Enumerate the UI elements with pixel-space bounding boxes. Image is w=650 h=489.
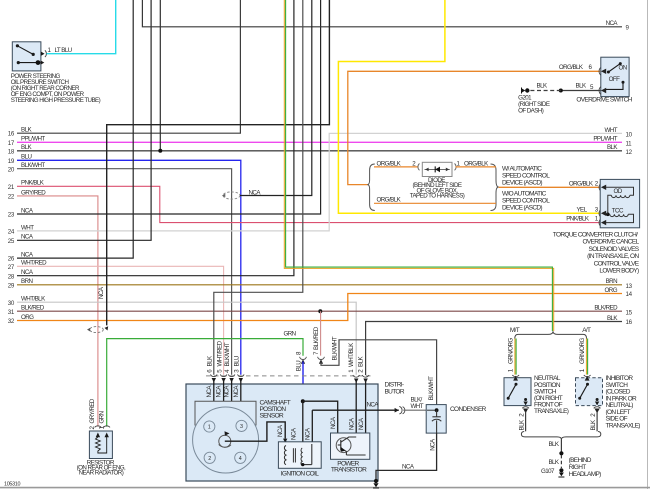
connector arcs resistor pins [95, 426, 102, 428]
wire BLK from neutral position switch [518, 412, 525, 432]
svg-text:19: 19 [8, 158, 15, 165]
sensor contact 4 [235, 452, 246, 463]
svg-text:17: 17 [8, 140, 15, 147]
svg-text:GRN: GRN [284, 331, 296, 338]
svg-text:ORG/BLK: ORG/BLK [464, 160, 489, 167]
svg-text:GRN/ORG: GRN/ORG [508, 338, 515, 364]
wire NCA from blue dot junction [301, 399, 305, 403]
wire BLK from inhibitor switch [590, 412, 597, 432]
connector arcs at diode [418, 164, 420, 171]
svg-text:LT BLU: LT BLU [55, 47, 72, 54]
inline connector (dashed ellipse) at bottom of NCA x107 line [87, 326, 108, 332]
wire 28 NCA (left edge to top) [8, 0, 294, 280]
wires pins 6 5 4 3 into sensor rect with NCA labels [206, 378, 241, 401]
power steering oil pressure switch box [12, 42, 44, 71]
pin labels 6 BLK / 5 WHT/RED / 4 BLK/WHT / 3 BLU rotated [207, 340, 241, 372]
svg-text:PPL/WHT: PPL/WHT [593, 136, 617, 143]
wire GRN/ORG to inhibitor switch [579, 338, 588, 375]
svg-text:WHT: WHT [21, 224, 34, 231]
wire NCA to distributor pin 6 (gray net from top) [214, 0, 303, 375]
svg-text:NCA: NCA [606, 20, 619, 27]
svg-text:OD: OD [614, 188, 623, 195]
junction dot BLK [559, 451, 563, 455]
svg-text:NCA: NCA [291, 427, 298, 440]
ignition coil box [278, 442, 321, 469]
svg-text:NCA: NCA [367, 402, 380, 409]
svg-text:23: 23 [8, 212, 15, 219]
wire GRN/ORG green strand (top to M/T A/T brace) [286, 0, 553, 331]
wire BLK/WHT pin7 stub to condenser [321, 340, 437, 405]
ground G201 [521, 88, 530, 94]
wire BLU pin 8 into distributor [296, 351, 303, 401]
svg-text:BLK: BLK [607, 315, 618, 322]
svg-text:20: 20 [8, 166, 15, 173]
wire NCA from inline connector to top [240, 0, 312, 196]
svg-text:ORG/BLK: ORG/BLK [377, 160, 402, 167]
svg-text:BLK: BLK [21, 127, 32, 134]
svg-text:BLK/WHT: BLK/WHT [21, 162, 45, 169]
junction dot G201 branch [559, 89, 563, 93]
wire 18 BLK (left 18 to right 12) [8, 144, 633, 156]
svg-text:BRN: BRN [21, 278, 32, 285]
svg-text:A/T: A/T [582, 327, 591, 334]
svg-text:NCA: NCA [402, 463, 415, 470]
ground at distributor case [373, 479, 379, 488]
svg-text:WHT: WHT [411, 403, 424, 410]
svg-text:NCA: NCA [224, 385, 231, 398]
svg-text:WHT/RED: WHT/RED [216, 340, 223, 366]
inline connector (dashed ellipse) NCA stub near camshaft sensor [222, 189, 261, 199]
wire NCA bus (x107 vertical with top run to x329) [98, 0, 329, 325]
wire 31 junction dot and BLK/RED branch to pin 7 connector [318, 309, 322, 355]
wire 27 WHT/RED (left edge to distributor pin 5) [8, 260, 224, 375]
svg-text:PNK/BLK: PNK/BLK [566, 216, 590, 223]
svg-text:BLU: BLU [21, 154, 31, 161]
svg-text:NCA: NCA [21, 234, 34, 241]
pin 1 connector of power steering switch [45, 50, 47, 57]
connector arcs at switch pins [512, 375, 519, 377]
svg-text:NCA: NCA [358, 417, 365, 430]
wires pins 1 2 into transistor area with NCA labels [349, 379, 366, 456]
svg-text:ORG/BLK: ORG/BLK [569, 181, 594, 188]
svg-text:24: 24 [8, 229, 15, 236]
svg-text:BLK: BLK [518, 419, 525, 430]
svg-text:NCA: NCA [98, 286, 105, 299]
wire GRN/ORG orange strand (top to M/T A/T brace) [284, 0, 553, 331]
svg-text:BLK: BLK [358, 356, 365, 367]
wire ORG/BLK diode row top right [456, 166, 497, 168]
connector arcs TCC pins 2,3,1 [599, 184, 601, 192]
svg-text:WHT/RED: WHT/RED [21, 260, 47, 267]
wire ORG/BLK to TCC pin 2 [499, 186, 601, 188]
connector pin 7 inline (double arc) [313, 326, 324, 363]
sensor contact 2 [204, 452, 215, 463]
svg-text:BLK/WHT: BLK/WHT [428, 376, 435, 400]
svg-text:105310: 105310 [4, 482, 20, 488]
svg-text:BLK/RED: BLK/RED [594, 305, 618, 312]
svg-text:ORG/BLK: ORG/BLK [377, 197, 402, 204]
camshaft position sensor circle [193, 407, 259, 473]
diode D1 box [422, 162, 452, 176]
wire YEL (top to TCC pin 3) [338, 0, 600, 213]
svg-text:ORG/BLK: ORG/BLK [559, 64, 584, 71]
wire BLK below merge brace [560, 440, 562, 453]
wire 32 ORG (left 32, jog up, to right 14) [8, 287, 633, 325]
connector arcs below switches [522, 407, 529, 409]
connector dashed line at distributor [206, 375, 371, 377]
wire 1 LT BLU from switch to top [47, 0, 116, 54]
sensor contact 1 [204, 421, 215, 432]
wire GRN from resistor to pin 8 connector [107, 339, 303, 427]
svg-text:NCA: NCA [430, 438, 437, 451]
svg-text:NCA: NCA [330, 416, 337, 429]
svg-text:31: 31 [8, 309, 15, 316]
power transistor box [331, 433, 370, 459]
svg-text:GRN/ORG: GRN/ORG [579, 338, 586, 364]
hook arrow into coil [285, 440, 291, 443]
wire GRN/ORG to neutral position switch [508, 338, 517, 375]
svg-text:WHT/BLK: WHT/BLK [21, 296, 46, 303]
wire NCA condenser return to ground [376, 433, 437, 481]
brace M/T A/T split [515, 331, 587, 338]
wire NCA dot to transistor base [303, 401, 338, 433]
brace right of diode alternates [491, 164, 499, 211]
sensor rotor center [219, 431, 231, 447]
svg-text:OFF: OFF [609, 76, 620, 83]
wire right 16 BLK (distributor pin 2 to right 16) [366, 315, 633, 375]
wire 30 WHT/BLK (left edge to distributor pin 1) [8, 296, 356, 375]
page border right [647, 0, 649, 489]
wire 17 PPL/WHT (left 17 to right 11) [8, 136, 632, 148]
svg-text:GRY/RED: GRY/RED [89, 398, 96, 423]
wire 24 WHT (left 24 up to right 10) [8, 127, 633, 236]
sensor contact 3 [236, 420, 247, 431]
svg-text:BLK: BLK [537, 83, 548, 90]
svg-text:OVERDRIVE SWITCH: OVERDRIVE SWITCH [576, 96, 632, 103]
svg-text:PNK/BLK: PNK/BLK [21, 180, 45, 187]
connector arc overdrive pin 5 [599, 87, 601, 95]
svg-text:BLK/WHT: BLK/WHT [332, 336, 339, 360]
wire NCA from sensor rotor to ignition coil [225, 422, 285, 441]
resistor box [89, 431, 112, 459]
distributor box [186, 384, 378, 481]
wire 23 NCA (left edge to top) [8, 0, 321, 219]
wire 26 NCA (left edge to top) [8, 0, 133, 263]
svg-text:CONDENSER: CONDENSER [450, 406, 487, 413]
wire NCA to condenser with connector [312, 409, 399, 411]
wire 21 PNK/BLK (left edge, jog down, to TCC pin 1) [8, 180, 600, 223]
wire 31 BLK/RED (left 31 to right 15) [8, 305, 633, 317]
svg-text:10: 10 [626, 131, 633, 138]
connector arcs pins 6 5 4 3 with arrows into box [211, 374, 245, 382]
svg-text:29: 29 [8, 282, 15, 289]
wire 22 GRY/RED (left edge down to resistor pin 2) [8, 189, 98, 426]
wire 20 BLK/WHT (left edge to distributor pin 4) [8, 162, 232, 375]
pin 1 arrow [41, 52, 45, 56]
inhibitor switch box (dashed) [576, 376, 603, 406]
svg-text:ORG: ORG [605, 287, 618, 294]
svg-text:BLK/WHT: BLK/WHT [224, 342, 231, 366]
svg-text:BLK/RED: BLK/RED [313, 326, 320, 350]
connector pin 8 inline (double arc) [300, 357, 307, 364]
svg-text:12: 12 [626, 149, 633, 156]
svg-text:NCA: NCA [206, 385, 213, 398]
svg-text:26: 26 [8, 256, 15, 263]
svg-text:BLK: BLK [548, 459, 559, 466]
svg-text:NCA: NCA [21, 207, 34, 214]
wire BLK from overdrive pin 5 to junction dot [561, 90, 601, 92]
connector arcs pins 1 2 with arrows [348, 342, 369, 383]
svg-text:16: 16 [8, 131, 15, 138]
wire BLK dashed to ground G201 [529, 90, 561, 92]
wire 29 BRN (left 29 to right 13) [8, 278, 633, 290]
overdrive switch box [601, 57, 629, 96]
ground G107 [558, 468, 564, 477]
vertical from top joining wire 18 [159, 0, 161, 151]
svg-text:G107: G107 [541, 468, 555, 475]
svg-text:BLU: BLU [234, 356, 241, 366]
svg-text:BLK: BLK [607, 144, 618, 151]
TCC/OD solenoid box [600, 179, 639, 227]
svg-text:BLK: BLK [548, 441, 559, 448]
wire BLK dashed to ground G107 [560, 455, 562, 468]
svg-text:NCA: NCA [21, 269, 34, 276]
svg-text:14: 14 [626, 291, 633, 298]
svg-text:27: 27 [8, 264, 15, 271]
wire 25 NCA (left edge to top) [8, 0, 151, 245]
svg-text:13: 13 [626, 283, 633, 290]
svg-text:25: 25 [8, 238, 15, 245]
camshaft position sensor connector rect [195, 401, 256, 425]
svg-text:2: 2 [208, 456, 211, 462]
svg-text:TCC: TCC [612, 208, 624, 215]
svg-text:PPL/WHT: PPL/WHT [21, 136, 45, 143]
wire 19 BLU (left edge to distributor pin 3) [8, 154, 241, 375]
svg-text:WHT: WHT [605, 127, 618, 134]
connector arc overdrive pin 6 [599, 68, 601, 76]
svg-text:NCA: NCA [21, 252, 34, 259]
svg-text:4: 4 [239, 456, 242, 462]
svg-text:BLK: BLK [590, 419, 597, 430]
wire NCA corner to condenser row [311, 410, 313, 444]
svg-text:ORG: ORG [21, 314, 34, 321]
wire NCA 9 (top vertical to right edge 9) [142, 0, 629, 31]
svg-text:18: 18 [8, 148, 15, 155]
svg-text:16: 16 [626, 319, 633, 326]
svg-text:11: 11 [626, 140, 633, 147]
svg-text:15: 15 [626, 309, 633, 316]
neutral position switch box [504, 376, 531, 406]
wire 16 BLK (left edge to top) [8, 0, 241, 138]
svg-text:NCA: NCA [305, 427, 312, 440]
svg-text:GRN: GRN [99, 411, 106, 423]
svg-text:YEL: YEL [576, 206, 587, 213]
svg-text:32: 32 [8, 318, 15, 325]
wire NCA dot down into ignition coil [302, 401, 304, 448]
svg-text:30: 30 [8, 300, 15, 307]
svg-text:3: 3 [240, 424, 243, 430]
svg-text:22: 22 [8, 194, 15, 201]
wire ORG/BLK diode bypass row [374, 202, 496, 204]
svg-text:BLK: BLK [576, 83, 587, 90]
svg-text:NCA: NCA [216, 385, 223, 398]
svg-text:BLK: BLK [207, 355, 214, 366]
wire ORG/BLK diode row top left [374, 166, 419, 168]
wire ORG/BLK (overdrive switch to diode brace) [348, 71, 600, 184]
svg-text:BLU: BLU [296, 361, 303, 371]
svg-text:NCA: NCA [233, 385, 240, 398]
svg-text:NCA: NCA [349, 417, 356, 430]
svg-text:28: 28 [8, 273, 15, 280]
svg-text:BRN: BRN [606, 278, 617, 285]
svg-text:DISTRI- BUTOR: DISTRI- BUTOR [385, 381, 405, 395]
svg-text:IGNITION COIL: IGNITION COIL [281, 470, 319, 477]
svg-text:GRY/RED: GRY/RED [21, 189, 46, 196]
brace left of diode alternates [367, 164, 374, 211]
svg-text:BLK/RED: BLK/RED [21, 305, 45, 312]
svg-text:BLK: BLK [21, 144, 32, 151]
junction dot wire18/vertical [158, 149, 162, 153]
svg-text:ON: ON [619, 65, 627, 72]
page border bottom [0, 487, 650, 489]
condenser capacitor symbol [427, 408, 441, 433]
brace BLK merge [521, 432, 600, 440]
svg-text:WHT/BLK: WHT/BLK [348, 342, 355, 367]
svg-text:1: 1 [208, 425, 211, 431]
svg-text:M/T: M/T [510, 327, 520, 334]
condenser box [426, 405, 446, 434]
svg-text:NCA: NCA [277, 424, 284, 437]
svg-text:21: 21 [8, 184, 15, 191]
